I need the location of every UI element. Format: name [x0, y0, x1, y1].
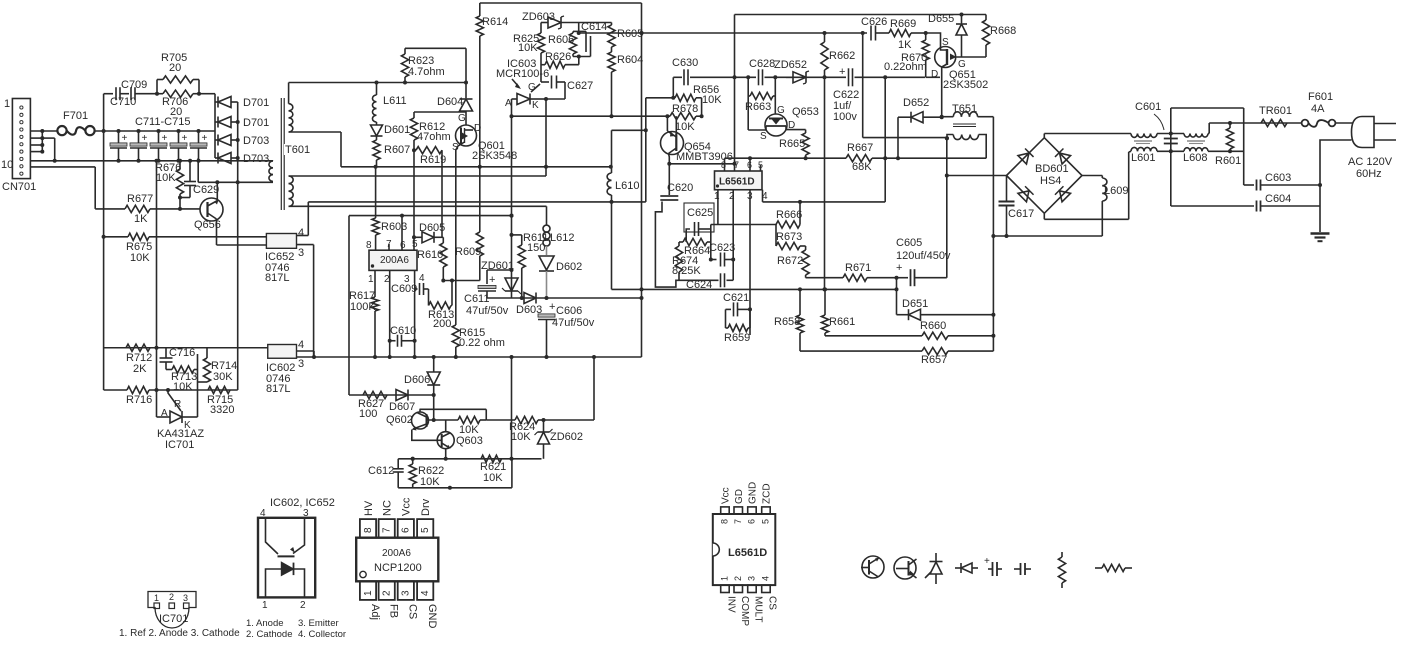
label p6 [747, 160, 752, 170]
label R614 [482, 16, 508, 28]
svg-text:NCP1200: NCP1200 [374, 562, 422, 574]
svg-text:100v: 100v [833, 111, 857, 123]
capacitor C629 [180, 161, 196, 198]
resistor R669 [889, 29, 926, 36]
label R712 [126, 352, 152, 364]
capacitor C716 [160, 348, 173, 370]
svg-text:C709: C709 [121, 79, 147, 91]
optocoupler IC602 [268, 345, 297, 359]
capacitor C614 [586, 31, 591, 56]
wire pin2 line [388, 270, 392, 357]
svg-text:S: S [760, 131, 767, 142]
label R674 [672, 255, 698, 267]
label pin4 [419, 273, 425, 284]
svg-text:2: 2 [300, 600, 306, 611]
resistor R662 [821, 33, 828, 289]
label IC701 [165, 439, 194, 451]
svg-text:L608: L608 [1183, 152, 1207, 164]
wire bus 158 [725, 156, 987, 160]
svg-text:3: 3 [303, 508, 309, 519]
svg-text:3320: 3320 [210, 404, 234, 416]
package NCP1200 [356, 497, 438, 628]
svg-text:G: G [528, 82, 536, 93]
inductor L610 [607, 130, 611, 289]
label L610 [615, 180, 639, 192]
resistor R668 [982, 15, 989, 58]
svg-text:200A6: 200A6 [382, 548, 411, 559]
resistor R705 [157, 76, 199, 94]
svg-text:C629: C629 [193, 184, 219, 196]
svg-text:1: 1 [154, 593, 159, 603]
svg-text:1: 1 [714, 191, 720, 202]
label pin7 [386, 239, 392, 250]
resistor R663 [748, 92, 775, 99]
svg-text:R626: R626 [545, 51, 571, 63]
label p4 [762, 191, 768, 202]
wire pin1 line [711, 190, 776, 225]
resistor R674 [675, 242, 682, 280]
svg-text:D651: D651 [902, 298, 928, 310]
label F701 [63, 110, 88, 122]
label C610 [390, 325, 416, 337]
wire bus 33 [579, 31, 928, 35]
svg-text:4: 4 [298, 339, 304, 351]
wire R624 to bus [544, 357, 595, 420]
legend capacitor [1014, 563, 1031, 575]
label 2SK3502 [943, 79, 988, 91]
wire IC602 pin4 [297, 351, 315, 357]
label R670 value [884, 61, 927, 73]
svg-text:10K: 10K [420, 476, 440, 488]
resistor R673 [776, 225, 806, 250]
svg-text:4: 4 [420, 590, 431, 596]
svg-text:D602: D602 [556, 261, 582, 273]
label MMBT3906 [676, 151, 733, 163]
wire pin4 line [413, 270, 417, 357]
label R678 [672, 103, 698, 115]
wire pin6 line [401, 216, 403, 251]
svg-text:C625: C625 [687, 207, 713, 219]
wire T601 mid down [289, 132, 341, 167]
svg-text:C617: C617 [1008, 208, 1034, 220]
label R656 value [702, 94, 722, 106]
legend resistor vertical [1058, 552, 1065, 588]
wire top bus [480, 2, 642, 4]
label ZD601 [481, 260, 514, 272]
resistor R659 [726, 309, 751, 331]
svg-text:Drv: Drv [420, 498, 432, 516]
svg-text:MCR100-6: MCR100-6 [496, 68, 549, 80]
label R677 value [134, 213, 148, 225]
svg-text:4. Collector: 4. Collector [298, 629, 346, 640]
diode D606 [427, 357, 440, 397]
capacitors C711-C715 [110, 129, 208, 163]
label R606 [548, 34, 574, 46]
capacitor C609 [415, 283, 429, 295]
label R661 [829, 316, 855, 328]
label S q653 [760, 131, 767, 142]
label R672 [777, 255, 803, 267]
mosfet Q653 [765, 77, 806, 136]
svg-text:817L: 817L [266, 383, 290, 395]
label R673 [776, 231, 802, 243]
label D601 [384, 124, 410, 136]
wire plug neutral [1320, 140, 1352, 206]
svg-text:R605: R605 [617, 28, 643, 40]
svg-text:3: 3 [298, 247, 304, 259]
capacitor C628 [759, 69, 763, 85]
svg-text:GND: GND [748, 482, 759, 504]
svg-text:C710: C710 [110, 96, 136, 108]
svg-text:+: + [182, 133, 188, 144]
label C617 [1008, 208, 1034, 220]
wire fuse to plug [1336, 122, 1354, 124]
label R662 [829, 50, 855, 62]
wire top bus 14 [735, 13, 987, 17]
label C614 [581, 21, 607, 33]
label Q656 [194, 219, 221, 231]
svg-text:C628: C628 [749, 58, 775, 70]
svg-text:D604: D604 [437, 96, 463, 108]
label R706 value [170, 106, 182, 118]
label C628 [749, 58, 775, 70]
svg-text:COMP: COMP [739, 596, 750, 626]
label L601 [1131, 152, 1155, 164]
svg-text:+: + [162, 133, 168, 144]
label pin3 [404, 274, 410, 285]
label p3 [747, 191, 753, 202]
wire winding tap 176 [289, 175, 546, 177]
wire Q654 emitter bus [669, 163, 734, 165]
label T651 [952, 103, 977, 115]
resistor R625 [537, 33, 544, 63]
label IC652 817L [265, 272, 289, 284]
svg-text:D601: D601 [384, 124, 410, 136]
svg-text:R604: R604 [617, 54, 643, 66]
label D606 [404, 374, 430, 386]
resistor TR601 [1261, 119, 1287, 126]
svg-text:+: + [896, 262, 902, 274]
wire L610 top link [612, 128, 648, 132]
label L609 [1104, 185, 1128, 197]
resistor R627 [363, 391, 387, 398]
bridge diode UR [1055, 148, 1071, 164]
resistor R619 [414, 147, 442, 154]
resistor R658 [796, 287, 803, 351]
svg-text:C612: C612 [368, 465, 394, 477]
resistor R714 [198, 348, 211, 382]
label R601 [1215, 155, 1241, 167]
label D651 [902, 298, 928, 310]
bridge diode LL [1018, 186, 1034, 202]
resistor R677 [95, 205, 200, 212]
inductor L611 [372, 83, 376, 123]
svg-text:8: 8 [363, 527, 374, 533]
svg-text:4: 4 [761, 576, 771, 581]
resistor R671 [843, 274, 867, 281]
wire pin7 stub [42, 138, 56, 163]
label D703a [243, 135, 269, 147]
svg-text:K: K [532, 100, 539, 111]
svg-text:Q656: Q656 [194, 219, 221, 231]
svg-text:R: R [174, 399, 181, 410]
wire row top [1157, 133, 1184, 135]
svg-text:D652: D652 [903, 97, 929, 109]
svg-text:R666: R666 [776, 209, 802, 221]
capacitor C620 [655, 164, 679, 287]
transformer T601 core [281, 98, 284, 210]
wire pin7 vcc line [733, 15, 737, 172]
svg-text:10K: 10K [518, 42, 538, 54]
package IC602 IC652 [258, 497, 335, 611]
diode D602 [539, 256, 554, 298]
svg-text:G: G [777, 105, 785, 116]
wire G diagonal [531, 84, 540, 92]
wire T601 sec bottom to L612 [289, 206, 547, 225]
svg-text:L609: L609 [1104, 185, 1128, 197]
label p7 [734, 160, 739, 170]
svg-text:3: 3 [747, 576, 757, 581]
svg-text:C614: C614 [581, 21, 607, 33]
svg-text:4: 4 [260, 508, 266, 519]
svg-text:R661: R661 [829, 316, 855, 328]
diode D655 [956, 15, 967, 58]
mosfet Q601 [456, 125, 477, 150]
label G scr [528, 82, 536, 93]
label G q651 [958, 59, 966, 70]
svg-text:CN701: CN701 [2, 181, 36, 193]
svg-text:Vcc: Vcc [401, 497, 413, 516]
svg-text:R660: R660 [920, 320, 946, 332]
inductor L609 [1102, 176, 1107, 237]
label R619 [420, 154, 446, 166]
label C609 [391, 283, 417, 295]
svg-text:D606: D606 [404, 374, 430, 386]
label HS4 [1040, 175, 1061, 187]
capacitor C626 [871, 26, 889, 41]
leader c601 [1154, 114, 1164, 130]
legend opto pins a [246, 618, 339, 629]
svg-text:R678: R678 [672, 103, 698, 115]
label R617 [349, 290, 375, 302]
svg-text:1: 1 [363, 590, 374, 596]
label R625 value [518, 42, 538, 54]
diode D601 [371, 122, 383, 140]
label D652 [903, 97, 929, 109]
label C622 [833, 89, 859, 101]
label IC603 [507, 58, 536, 70]
resistor R613 [429, 281, 453, 310]
wire pin8 to R677 [30, 167, 95, 209]
svg-text:200: 200 [433, 318, 451, 330]
connector CN701 [12, 99, 30, 179]
svg-text:R663: R663 [745, 101, 771, 113]
svg-text:7: 7 [734, 160, 739, 170]
resistor R656 [673, 94, 701, 101]
zener ZD652 [786, 71, 809, 84]
wire riser 885 [884, 77, 886, 202]
capacitor C603 [1244, 180, 1322, 191]
svg-text:GND: GND [426, 604, 438, 629]
wire filter box top [1171, 107, 1244, 109]
svg-text:R610: R610 [417, 249, 443, 261]
svg-text:47uf/50v: 47uf/50v [552, 317, 595, 329]
svg-text:5: 5 [420, 527, 431, 533]
label R603 [381, 221, 407, 233]
label S Q601 [452, 142, 459, 153]
resistor R678 [667, 98, 703, 120]
label C612 [368, 465, 394, 477]
label A scr [505, 98, 512, 109]
label D q653 [788, 120, 795, 131]
label D607 [389, 401, 415, 413]
label R623 [408, 55, 434, 67]
wire bus 348 [104, 347, 268, 349]
wire 395 [349, 394, 434, 396]
wire bus 167 [341, 165, 613, 169]
resistor R624 [486, 416, 545, 423]
svg-text:C626: C626 [861, 16, 887, 28]
wire pin2 line l6561 [732, 190, 734, 281]
svg-text:G: G [458, 113, 466, 124]
optocoupler IC652 [266, 234, 296, 249]
transistor Q654 [661, 116, 684, 166]
svg-text:L610: L610 [615, 180, 639, 192]
svg-text:2. Cathode: 2. Cathode [246, 629, 292, 640]
wire pin3 line l6561 [748, 190, 752, 335]
wire T601 top to bus82 [289, 81, 466, 104]
label C620 [667, 182, 693, 194]
label 10K q602 [459, 424, 479, 436]
capacitor C610 [390, 335, 415, 347]
svg-text:6: 6 [401, 527, 412, 533]
label C603 [1265, 172, 1291, 184]
resistor R621 [481, 455, 502, 462]
label R660 [920, 320, 946, 332]
label R624 value [511, 431, 531, 443]
svg-text:AC 120V: AC 120V [1348, 156, 1393, 168]
svg-text:Adj: Adj [369, 604, 381, 620]
svg-text:ZD652: ZD652 [774, 59, 807, 71]
label R714 value [213, 371, 233, 383]
svg-text:1K: 1K [134, 213, 148, 225]
resistor R612 [410, 112, 466, 250]
svg-text:4A: 4A [1311, 103, 1325, 115]
wire 458 [398, 457, 541, 461]
label KA431AZ [157, 428, 204, 440]
svg-text:C604: C604 [1265, 193, 1291, 205]
wire left vertical bus [102, 94, 106, 390]
svg-text:HV: HV [363, 500, 375, 516]
label C606 value [552, 317, 595, 329]
wire R656 left feed [646, 97, 674, 99]
wire bridge top [1044, 134, 1131, 138]
svg-text:6: 6 [400, 240, 406, 251]
svg-text:+: + [489, 274, 495, 286]
svg-text:20: 20 [169, 62, 181, 74]
wire x511 vertical [511, 357, 513, 459]
label C624 [686, 279, 712, 291]
diode D603 [524, 293, 536, 304]
svg-text:47ohm: 47ohm [417, 131, 451, 143]
svg-text:68K: 68K [852, 161, 872, 173]
resistor R605 [608, 23, 615, 48]
svg-text:R659: R659 [724, 332, 750, 344]
svg-text:30K: 30K [213, 371, 233, 383]
svg-text:R673: R673 [776, 231, 802, 243]
wire bus 77 [673, 75, 925, 79]
svg-text:TR601: TR601 [1259, 105, 1292, 117]
label p8 [721, 160, 726, 170]
svg-text:C610: C610 [390, 325, 416, 337]
svg-text:7: 7 [382, 527, 393, 533]
label IC652 0746 [265, 262, 289, 274]
label D703b [243, 153, 269, 165]
legend transistor PNP [894, 557, 917, 579]
label C629 [193, 184, 219, 196]
resistor R675 [104, 233, 267, 240]
svg-text:3: 3 [298, 358, 304, 370]
svg-text:ZD603: ZD603 [522, 11, 555, 23]
svg-text:R657: R657 [921, 354, 947, 366]
wire bus 236 [993, 234, 1102, 238]
svg-text:D701: D701 [243, 117, 269, 129]
diodes D701 D701 D703 D703 [215, 97, 238, 164]
resistor R601 [1226, 123, 1233, 151]
label R671 [845, 262, 871, 274]
wire diode cathode bus [236, 102, 240, 390]
wire pin4 line l6561 [763, 190, 886, 204]
label T601 [284, 144, 310, 156]
label pin1 [368, 274, 374, 285]
wire 280 row [679, 279, 733, 281]
svg-text:CS: CS [767, 596, 778, 610]
label C606 [556, 305, 582, 317]
label R612 [419, 121, 445, 133]
diode D605 [414, 232, 443, 243]
arrow IC603 [512, 79, 521, 89]
label 10 [1, 159, 13, 171]
wire pin bus verticals [30, 129, 44, 154]
diode D652 [898, 112, 944, 159]
shunt regulator IC701 KA431AZ [157, 390, 198, 423]
wire fuse to bus [95, 129, 215, 133]
label F601 [1308, 91, 1333, 103]
svg-text:A: A [161, 408, 168, 419]
svg-text:4.7ohm: 4.7ohm [408, 66, 445, 78]
label TR601 [1259, 105, 1292, 117]
svg-text:D605: D605 [419, 222, 445, 234]
resistor R706 [155, 90, 201, 97]
label 1 [4, 98, 10, 110]
label C601 [1135, 101, 1161, 113]
svg-text:4: 4 [419, 273, 425, 284]
svg-text:100: 100 [359, 408, 377, 420]
label C621 [723, 292, 749, 304]
label R716 [126, 394, 152, 406]
svg-text:BD601: BD601 [1035, 163, 1069, 175]
svg-text:D701: D701 [243, 97, 269, 109]
wire bridge right [1082, 175, 1102, 177]
resistor 10K q602 [429, 416, 487, 423]
label R622 [418, 465, 444, 477]
wire bottom bus [30, 159, 273, 163]
label R612 value [417, 131, 451, 143]
svg-text:T651: T651 [952, 103, 977, 115]
wire row bottom [1157, 150, 1184, 152]
svg-text:FB: FB [388, 604, 400, 618]
label C709 [121, 79, 147, 91]
